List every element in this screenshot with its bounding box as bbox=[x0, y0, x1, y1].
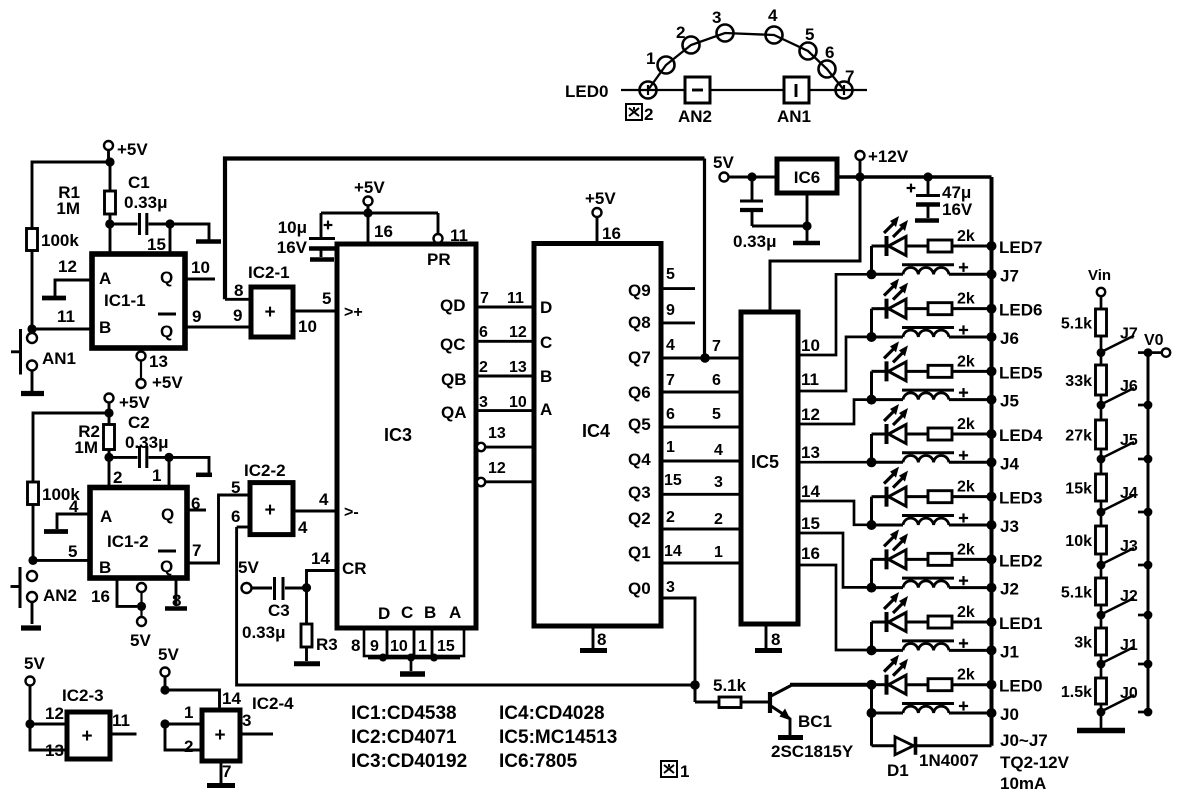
svg-text:10: 10 bbox=[801, 336, 820, 355]
wire J1 contact to V0 bus bbox=[1138, 660, 1152, 669]
IC4 output label Q8 pin9 stub bbox=[628, 302, 695, 332]
LED LED4 bbox=[872, 404, 929, 444]
switch contact J5 (relay contact) bbox=[1102, 432, 1138, 458]
ground bar (C2 right) bbox=[196, 473, 212, 478]
svg-text:5V: 5V bbox=[238, 558, 259, 577]
wire pin into IC1-1 top (RC pin) bbox=[109, 224, 112, 254]
resistor 100k (lower) bbox=[28, 482, 81, 505]
wire LED2 to bus bbox=[952, 554, 997, 564]
resistor R3 bbox=[301, 588, 338, 661]
svg-text:12: 12 bbox=[488, 460, 506, 477]
IC1-2 pin 7 wire (Qbar to IC2-2 pin5) bbox=[187, 495, 250, 563]
svg-text:2: 2 bbox=[644, 105, 653, 124]
svg-text:IC5: IC5 bbox=[751, 452, 779, 472]
svg-text:13: 13 bbox=[488, 425, 506, 442]
svg-text:15: 15 bbox=[664, 472, 682, 489]
svg-text:14: 14 bbox=[311, 549, 330, 568]
svg-text:5: 5 bbox=[712, 406, 721, 423]
push-button AN1 bbox=[11, 329, 76, 375]
IC U IC1-1 (CD4538 half) box bbox=[92, 254, 185, 348]
svg-text:6: 6 bbox=[825, 43, 834, 62]
IC1-2 bottom terminal to 5V bbox=[130, 583, 151, 650]
wire LED3 cathode down to J3 node bbox=[870, 497, 873, 525]
label LED3 bbox=[999, 489, 1042, 508]
svg-text:3k: 3k bbox=[1074, 635, 1092, 652]
node junction C3/R3/CR bbox=[302, 583, 311, 592]
svg-text:13: 13 bbox=[801, 443, 820, 462]
svg-text:6: 6 bbox=[191, 494, 200, 513]
node junction +12V bbox=[855, 172, 864, 181]
resistor 100k (upper) bbox=[27, 229, 80, 251]
wire IC4 Q6 pin7 to IC5 pin6 bbox=[628, 372, 741, 402]
wire +5V into IC3 pin 16 bbox=[368, 213, 393, 244]
svg-text:10: 10 bbox=[298, 317, 317, 336]
gate IC2-1 (CD4071) box bbox=[248, 263, 293, 337]
label J3 bbox=[1000, 517, 1019, 536]
label LED5 bbox=[999, 363, 1042, 382]
node junction J7 bbox=[867, 269, 877, 279]
svg-text:10k: 10k bbox=[1065, 533, 1092, 550]
svg-text:Q1: Q1 bbox=[628, 543, 651, 562]
figure-2 LED position circles 0-7 bbox=[640, 25, 853, 99]
ground (IC2-4 pin 7) bbox=[207, 761, 235, 786]
svg-text:Vin: Vin bbox=[1088, 267, 1111, 284]
wire LED0 cathode down to J0 node bbox=[870, 685, 873, 713]
IC IC3 (CD40192) box bbox=[337, 244, 476, 628]
svg-text:5.1k: 5.1k bbox=[1061, 585, 1092, 602]
svg-text:J1: J1 bbox=[1120, 637, 1138, 654]
svg-text:16: 16 bbox=[91, 587, 110, 606]
svg-text:2SC1815Y: 2SC1815Y bbox=[771, 742, 854, 761]
IC1-2 pin 16 wire bbox=[91, 578, 137, 606]
svg-text:11: 11 bbox=[801, 370, 819, 389]
resistor 2k (LED0) bbox=[928, 667, 975, 691]
svg-text:1: 1 bbox=[646, 49, 655, 68]
power terminal +5V (IC3) bbox=[354, 178, 385, 213]
svg-text:LED1: LED1 bbox=[999, 614, 1042, 633]
svg-text:B: B bbox=[99, 558, 111, 577]
svg-text:IC2-1: IC2-1 bbox=[248, 263, 290, 282]
svg-text:QC: QC bbox=[440, 335, 466, 354]
diode D1 1N4007 bbox=[872, 737, 992, 780]
wire J2 contact to V0 bus bbox=[1138, 611, 1152, 620]
label J0 bbox=[1000, 705, 1019, 724]
wire J6 contact to V0 bus bbox=[1138, 401, 1152, 410]
resistor 2k (LED4) bbox=[928, 416, 975, 440]
wire +5V to 100k resistor (left branch) bbox=[32, 162, 110, 229]
svg-text:1: 1 bbox=[666, 439, 675, 456]
svg-text:C3: C3 bbox=[268, 601, 290, 620]
figure-2 arc wire through LED positions bbox=[648, 33, 844, 90]
LED LED7 bbox=[872, 216, 929, 256]
svg-text:2: 2 bbox=[714, 511, 723, 528]
svg-text:9: 9 bbox=[666, 302, 675, 319]
resistor 15k (ladder above J4) bbox=[1065, 474, 1106, 501]
wire IC3 QB pin2 to IC4 B pin13 bbox=[476, 359, 534, 376]
svg-text:IC2-2: IC2-2 bbox=[244, 461, 286, 480]
IC1-2 pin 4 wire (A input) bbox=[57, 497, 90, 529]
svg-text:Q8: Q8 bbox=[628, 313, 651, 332]
svg-text:13: 13 bbox=[45, 741, 64, 760]
gate IC2-4 (CD4071 spare) box bbox=[202, 694, 294, 761]
svg-text:QA: QA bbox=[441, 403, 467, 422]
svg-text:Q2: Q2 bbox=[628, 509, 651, 528]
wire +5V to 100k resistor (left branch lower) bbox=[33, 413, 109, 482]
IC1-1 pin 10 wire (Q output stub) bbox=[185, 258, 215, 279]
wire J7 contact to V0 bus bbox=[1138, 348, 1152, 357]
svg-text:+5V: +5V bbox=[152, 373, 183, 392]
svg-text:J4: J4 bbox=[1000, 454, 1019, 473]
node junction +5V rail IC1-1 bbox=[105, 157, 114, 166]
IC1-1 pin 13 terminal to +5V bbox=[137, 352, 184, 393]
switch contact J7 (relay contact) bbox=[1102, 326, 1138, 352]
resistor 2k (LED1) bbox=[928, 604, 975, 628]
svg-text:+5V: +5V bbox=[119, 393, 150, 412]
svg-text:B: B bbox=[99, 318, 111, 337]
node junction J5 bbox=[867, 395, 877, 405]
svg-text:IC2:CD4071: IC2:CD4071 bbox=[351, 727, 457, 748]
capacitor C2 0.33u bbox=[109, 413, 169, 468]
power terminal 5V (C3) bbox=[238, 558, 259, 593]
node junction 47u cap bbox=[923, 172, 932, 181]
IC5 pin 10 wire to J7 bbox=[798, 274, 872, 355]
svg-text:LED2: LED2 bbox=[999, 551, 1042, 570]
label figure-2 caption bbox=[626, 104, 653, 124]
svg-text:6: 6 bbox=[231, 507, 240, 526]
push-button AN1 (figure-2) bbox=[777, 77, 811, 126]
svg-text:2k: 2k bbox=[957, 667, 975, 684]
LED LED6 bbox=[872, 279, 929, 319]
label parts list column 2 bbox=[499, 703, 617, 772]
label LED4 bbox=[999, 426, 1043, 445]
ground bar (IC3 bottom) bbox=[400, 671, 425, 676]
svg-text:5: 5 bbox=[231, 478, 240, 497]
wire LED4 cathode down to J4 node bbox=[870, 434, 873, 462]
ground (ladder bottom) bbox=[1077, 712, 1125, 731]
svg-text:AN1: AN1 bbox=[777, 107, 811, 126]
svg-text:8: 8 bbox=[351, 636, 360, 655]
svg-text:IC6: IC6 bbox=[794, 168, 820, 187]
relay coil J2 bbox=[872, 576, 997, 593]
resistor 5.1k (base) bbox=[695, 676, 747, 708]
svg-text:2k: 2k bbox=[957, 416, 975, 433]
ground (IC6 common) bbox=[793, 193, 820, 243]
ground (IC4 pin 8) bbox=[580, 626, 607, 651]
svg-text:2k: 2k bbox=[957, 228, 975, 245]
power terminal 5V (IC2-3) bbox=[24, 654, 45, 724]
svg-text:2k: 2k bbox=[957, 541, 975, 558]
svg-text:5: 5 bbox=[68, 542, 77, 561]
svg-text:Q7: Q7 bbox=[628, 348, 651, 367]
IC U IC1-2 (CD4538 half) box bbox=[90, 488, 187, 579]
wire LED7 to bus bbox=[952, 241, 997, 251]
svg-text:33k: 33k bbox=[1065, 373, 1092, 390]
svg-text:IC1-2: IC1-2 bbox=[107, 532, 149, 551]
svg-text:15: 15 bbox=[147, 235, 166, 254]
svg-text:C: C bbox=[540, 333, 552, 352]
node junction J0 bbox=[867, 708, 877, 718]
wire J3 contact to V0 bus bbox=[1138, 561, 1152, 570]
node junction C2 right / pin 1 bbox=[164, 453, 173, 462]
capacitor 10u/16V electrolytic bbox=[277, 213, 335, 257]
svg-text:16: 16 bbox=[801, 544, 820, 563]
power terminal +5V (IC1-1 section) bbox=[104, 140, 148, 162]
IC5 pin 11 wire to J6 bbox=[798, 337, 872, 391]
IC1-2 pin 5 wire (B input) bbox=[28, 542, 90, 565]
wire +5V rail over IC3 bbox=[321, 212, 438, 215]
IC IC5 (MC14513) box bbox=[741, 312, 798, 624]
svg-text:12: 12 bbox=[801, 405, 820, 424]
wire 100k to node B lower bbox=[32, 505, 35, 561]
resistor 3k (ladder above J1) bbox=[1074, 628, 1106, 655]
svg-text:Q6: Q6 bbox=[628, 383, 651, 402]
svg-text:IC4:CD4028: IC4:CD4028 bbox=[499, 703, 605, 724]
svg-text:5: 5 bbox=[666, 266, 675, 283]
svg-text:C1: C1 bbox=[128, 173, 150, 192]
svg-text:LED0: LED0 bbox=[999, 677, 1042, 696]
ground (below AN1) bbox=[21, 371, 44, 394]
label J1 bbox=[1000, 642, 1019, 661]
wire ladder segment to J4 node bbox=[1097, 501, 1106, 516]
figure-2 LED arc baseline wire bbox=[621, 89, 867, 91]
resistor 5.1k (ladder above J7) bbox=[1061, 309, 1107, 336]
svg-text:16: 16 bbox=[374, 222, 393, 241]
svg-text:7: 7 bbox=[845, 67, 854, 86]
wire V0 bus vertical bbox=[1147, 353, 1150, 712]
svg-text:5: 5 bbox=[322, 289, 331, 308]
svg-text:3: 3 bbox=[714, 474, 723, 491]
gate IC2-2 (CD4071) box bbox=[244, 461, 293, 535]
power terminal +5V (IC4) bbox=[585, 189, 621, 244]
svg-text:6: 6 bbox=[666, 406, 675, 423]
svg-text:+5V: +5V bbox=[585, 189, 616, 208]
relay coil J7 bbox=[872, 263, 997, 280]
label J2 bbox=[1000, 580, 1019, 599]
resistor 2k (LED6) bbox=[928, 291, 975, 315]
wire IC4 Q1 pin14 to IC5 pin1 bbox=[628, 543, 741, 563]
svg-text:11: 11 bbox=[112, 711, 130, 730]
svg-text:2: 2 bbox=[676, 23, 685, 42]
relay coil J6 bbox=[872, 325, 997, 342]
relay coil J5 bbox=[872, 388, 997, 405]
IC IC6 (7805) box bbox=[777, 159, 837, 193]
capacitor 47u/16V electrolytic bbox=[907, 177, 973, 219]
label J7 bbox=[1000, 266, 1019, 285]
IC5 pin 14 wire to J3 bbox=[798, 482, 872, 525]
wire ladder inter-resistor segment bbox=[1100, 664, 1103, 678]
wire ladder segment to J7 node bbox=[1097, 336, 1106, 357]
svg-text:6: 6 bbox=[712, 372, 721, 389]
svg-text:5V: 5V bbox=[713, 153, 734, 172]
IC3 count-up input symbol bbox=[344, 304, 363, 321]
resistor 2k (LED2) bbox=[928, 541, 975, 565]
wire ladder inter-resistor segment bbox=[1100, 353, 1103, 365]
IC3 bottom pin boxes 9 10 1 15 bbox=[364, 629, 464, 656]
svg-text:4: 4 bbox=[768, 6, 778, 25]
svg-text:B: B bbox=[424, 603, 436, 622]
wire IC4 Q3 pin15 to IC5 pin3 bbox=[628, 472, 741, 502]
ground (BC1 emitter) bbox=[778, 718, 803, 738]
wire IC6 output to +12V bus bbox=[837, 175, 992, 179]
ground bar (C1 right) bbox=[196, 239, 221, 244]
wire LED4 to bus bbox=[952, 429, 997, 439]
svg-text:LED5: LED5 bbox=[999, 363, 1042, 382]
svg-text:5.1k: 5.1k bbox=[713, 676, 747, 695]
svg-text:IC3: IC3 bbox=[384, 425, 412, 445]
label LED1 bbox=[999, 614, 1042, 633]
svg-text:1.5k: 1.5k bbox=[1061, 684, 1092, 701]
IC2-4 input wires 1 2 bbox=[160, 703, 202, 756]
svg-text:15: 15 bbox=[801, 514, 820, 533]
wire feedback vertical right segment bbox=[703, 159, 706, 359]
svg-text:10: 10 bbox=[509, 394, 527, 411]
svg-text:5V: 5V bbox=[158, 645, 179, 664]
ground bar (IC1-2 pin 4) bbox=[44, 529, 68, 534]
IC5 pin 12 wire to J5 bbox=[798, 400, 872, 424]
node junction LED0 cathode / collector bbox=[867, 680, 877, 690]
svg-text:+: + bbox=[81, 726, 92, 747]
svg-text:J7: J7 bbox=[1120, 326, 1138, 343]
resistor 2k (LED7) bbox=[928, 228, 975, 252]
svg-text:5V: 5V bbox=[130, 631, 151, 650]
svg-text:9: 9 bbox=[192, 307, 201, 326]
wire IC4 Q7 pin4 to IC5 pin7 bbox=[628, 337, 741, 367]
wire IC3 bottom pins to ground bbox=[368, 654, 460, 672]
svg-text:Q: Q bbox=[160, 322, 173, 341]
label J0~J7 relay note bbox=[1000, 731, 1070, 793]
svg-text:14: 14 bbox=[222, 689, 241, 708]
wire IC4 Q0 pin3 down to feedback node bbox=[628, 579, 695, 702]
LED LED3 bbox=[872, 467, 929, 507]
svg-text:3: 3 bbox=[666, 579, 675, 596]
label J5 bbox=[1000, 392, 1019, 411]
svg-text:7: 7 bbox=[712, 338, 721, 355]
svg-text:16V: 16V bbox=[942, 200, 973, 219]
ground bar (47u cap) bbox=[915, 218, 939, 223]
wire +12V to IC5 top bbox=[770, 177, 860, 312]
svg-text:5: 5 bbox=[805, 25, 814, 44]
svg-text:B: B bbox=[540, 367, 552, 386]
wire LED6 cathode down to J6 node bbox=[870, 309, 873, 337]
wire IC3 QD pin7 to IC4 D pin11 bbox=[476, 290, 534, 307]
svg-text:IC1-1: IC1-1 bbox=[104, 291, 146, 310]
svg-text:3: 3 bbox=[479, 394, 488, 411]
IC4 output label Q9 pin5 stub bbox=[628, 266, 695, 300]
wire LED5 to bus bbox=[952, 366, 997, 376]
LED LED0 bbox=[872, 655, 929, 695]
wire +12V vertical bus to LED/relay array bbox=[990, 177, 994, 746]
wire LED0 to bus bbox=[952, 680, 997, 690]
label parts list column 1 bbox=[351, 703, 467, 772]
wire feedback net Q0 to IC2-2 pin6 (bottom run) bbox=[237, 527, 695, 685]
svg-text:BC1: BC1 bbox=[798, 712, 832, 731]
svg-text:J7: J7 bbox=[1000, 266, 1019, 285]
svg-text:1: 1 bbox=[680, 762, 689, 781]
svg-text:7: 7 bbox=[192, 541, 201, 560]
IC2-4 pin 14 wire bbox=[160, 685, 241, 710]
IC1-1 pin 11 wire (B input) bbox=[27, 307, 92, 334]
svg-text:LED4: LED4 bbox=[999, 426, 1043, 445]
IC1-1 pin 9 wire (Qbar to IC2-1) bbox=[185, 306, 251, 327]
svg-text:6: 6 bbox=[479, 324, 488, 341]
ground bar (10u cap) bbox=[310, 257, 334, 262]
resistor R2 1M bbox=[74, 413, 114, 457]
node junction R1/C1/pin bbox=[105, 214, 114, 229]
svg-text:IC2-3: IC2-3 bbox=[62, 686, 104, 705]
wire pin 1 into IC1-2 top bbox=[152, 457, 169, 487]
wire IC4 Q2 pin2 to IC5 pin2 bbox=[628, 509, 741, 529]
switch contact J6 (relay contact) bbox=[1102, 378, 1138, 404]
IC3 CR pin 14 wire bbox=[307, 549, 367, 588]
svg-text:4: 4 bbox=[69, 497, 79, 516]
switch contact J2 (relay contact) bbox=[1102, 588, 1138, 614]
power terminal +5V (IC1-2 section) bbox=[105, 393, 151, 413]
svg-text:J3: J3 bbox=[1000, 517, 1019, 536]
svg-text:8: 8 bbox=[771, 630, 780, 649]
LED LED1 bbox=[872, 592, 929, 632]
wire J4 contact to V0 bus bbox=[1138, 508, 1152, 517]
svg-text:2k: 2k bbox=[957, 479, 975, 496]
svg-text:100k: 100k bbox=[41, 231, 79, 250]
svg-text:D: D bbox=[378, 604, 390, 623]
svg-text:1M: 1M bbox=[56, 199, 80, 218]
svg-text:J3: J3 bbox=[1120, 538, 1138, 555]
svg-text:12: 12 bbox=[509, 324, 527, 341]
resistor 5.1k (ladder above J2) bbox=[1061, 578, 1107, 605]
power terminal V0 bbox=[1144, 332, 1170, 357]
wire IC4 Q5 pin6 to IC5 pin5 bbox=[628, 406, 741, 434]
switch contact J0 (relay contact) bbox=[1102, 685, 1138, 711]
svg-text:1M: 1M bbox=[74, 438, 98, 457]
svg-text:+: + bbox=[264, 302, 275, 323]
label LED0 (figure-2) bbox=[565, 82, 608, 101]
svg-text:9: 9 bbox=[233, 306, 242, 325]
capacitor 0.33u (IC6 input) bbox=[733, 177, 777, 251]
relay coil J1 bbox=[872, 639, 997, 656]
svg-text:C2: C2 bbox=[128, 413, 150, 432]
node junction 5V/cap bbox=[747, 172, 756, 181]
svg-text:0.33μ: 0.33μ bbox=[125, 433, 169, 452]
resistor R1 1M bbox=[56, 162, 115, 218]
svg-text:AN2: AN2 bbox=[678, 107, 712, 126]
wire ladder inter-resistor segment bbox=[1100, 512, 1103, 526]
svg-text:J0: J0 bbox=[1120, 685, 1138, 702]
svg-text:IC3:CD40192: IC3:CD40192 bbox=[351, 751, 467, 772]
svg-text:15k: 15k bbox=[1065, 481, 1092, 498]
svg-text:J2: J2 bbox=[1000, 580, 1019, 599]
svg-text:CR: CR bbox=[342, 559, 367, 578]
svg-text:7: 7 bbox=[666, 372, 675, 389]
svg-text:13: 13 bbox=[149, 352, 168, 371]
IC5 pin 16 wire to J1 bbox=[798, 544, 872, 650]
svg-text:J5: J5 bbox=[1120, 432, 1138, 449]
svg-text:IC2-4: IC2-4 bbox=[252, 694, 294, 713]
resistor 1.5k (ladder above J0) bbox=[1061, 678, 1107, 704]
wire IC3 pin12 (carry) to IC4 bbox=[477, 460, 534, 486]
node junction R2/C2/pin2 bbox=[104, 450, 113, 463]
resistor 2k (LED3) bbox=[928, 479, 975, 503]
IC4 input labels D C B A bbox=[540, 298, 552, 419]
node junction feedback on Q7 wire bbox=[700, 353, 710, 363]
svg-text:QB: QB bbox=[441, 370, 467, 389]
svg-text:14: 14 bbox=[664, 543, 682, 560]
IC IC4 (CD4028) box bbox=[534, 244, 661, 627]
wire BC1 collector to LED0 node bbox=[790, 683, 872, 687]
wire ladder segment to J0 node bbox=[1097, 704, 1106, 716]
ground bar (R3) bbox=[294, 661, 320, 666]
svg-text:J0: J0 bbox=[1000, 705, 1019, 724]
relay coil J3 bbox=[872, 513, 997, 530]
